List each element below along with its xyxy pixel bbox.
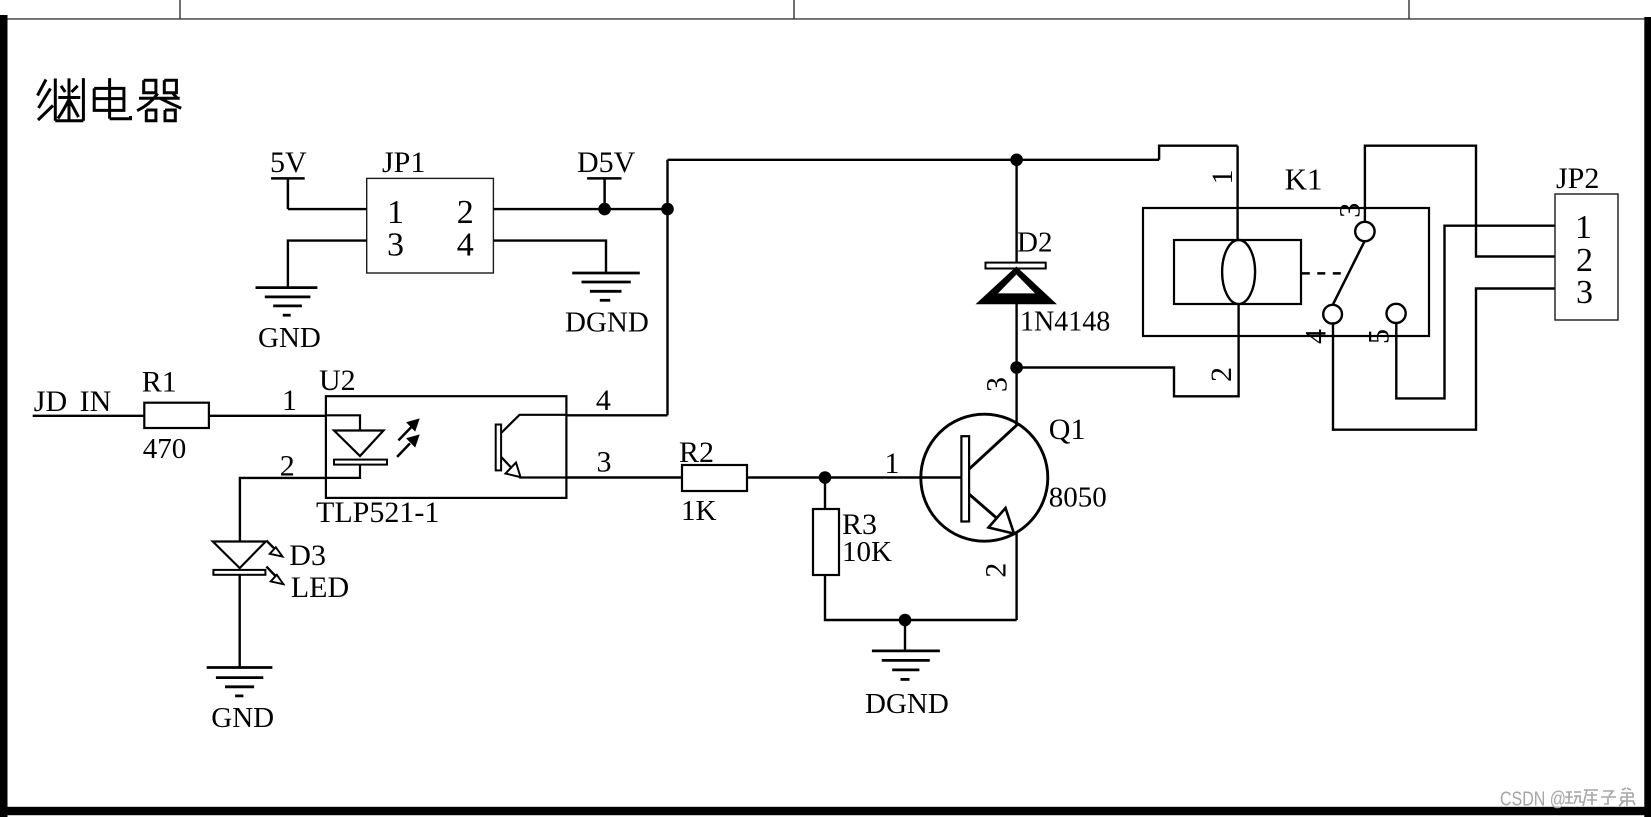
svg-text:4: 4 bbox=[596, 384, 611, 417]
D3 light ray arrow 1 bbox=[266, 541, 282, 557]
svg-text:1N4148: 1N4148 bbox=[1020, 307, 1110, 338]
wire D5V rail top horizontal bbox=[668, 159, 1160, 161]
U2 LED triangle bbox=[334, 431, 384, 457]
svg-text:10K: 10K bbox=[842, 536, 892, 568]
svg-text:3: 3 bbox=[387, 227, 404, 264]
svg-text:3: 3 bbox=[1576, 274, 1593, 311]
svg-text:DGND: DGND bbox=[865, 688, 949, 720]
ground GND (left of JP1) bbox=[256, 288, 318, 316]
diode D2 body bbox=[976, 267, 1057, 305]
power symbol D5V bbox=[587, 178, 621, 209]
switch contact pin4: circle bbox=[1323, 305, 1342, 324]
wire K1 pin5 down right up to JP2 pin1 bbox=[1396, 226, 1555, 399]
junction dot emitter ground bbox=[899, 614, 912, 627]
junction dot D2 bottom bbox=[1010, 361, 1023, 374]
svg-text:3: 3 bbox=[1334, 203, 1367, 218]
sheet border bottom bar bbox=[0, 807, 1651, 815]
resistor R2 bbox=[682, 465, 747, 491]
wire JD_IN to R1 bbox=[33, 415, 145, 417]
sheet top reference line bbox=[7, 18, 1644, 20]
U2 emitter lead to pin3 bbox=[519, 476, 566, 478]
wire U2 pin2 to D3 bbox=[240, 478, 326, 542]
svg-text:8050: 8050 bbox=[1049, 482, 1107, 514]
svg-text:D3: D3 bbox=[289, 539, 326, 572]
wire K1 pin3 up and right bbox=[1365, 146, 1555, 257]
U2 light ray arrow 1 bbox=[398, 420, 418, 441]
wire R3 to ground rail bbox=[825, 575, 1017, 620]
wire D5V rail vertical (junction to U2 pin4) bbox=[666, 160, 668, 415]
U2 phototransistor collector bbox=[501, 415, 566, 433]
svg-text:1: 1 bbox=[387, 194, 404, 231]
sheet tick 1 bbox=[179, 0, 181, 19]
svg-text:U2: U2 bbox=[319, 364, 356, 397]
svg-text:K1: K1 bbox=[1285, 162, 1323, 197]
LED D3 cathode bar bbox=[213, 570, 265, 575]
U2 phototransistor emitter bbox=[501, 457, 514, 471]
opto-coupler U2 body bbox=[326, 396, 567, 498]
svg-text:1K: 1K bbox=[681, 495, 717, 527]
svg-text:1: 1 bbox=[282, 384, 297, 417]
U2 internal LED anode lead bbox=[326, 415, 360, 430]
wire U2 pin3 to R2 bbox=[566, 476, 682, 478]
svg-text:JP2: JP2 bbox=[1556, 162, 1599, 195]
svg-text:IN: IN bbox=[80, 385, 112, 418]
U2 phototransistor base bar bbox=[496, 425, 501, 471]
svg-text:4: 4 bbox=[1300, 329, 1333, 344]
wire U2 pin4 to D5V rail bbox=[566, 414, 667, 416]
wire D3 to GND bbox=[238, 575, 240, 668]
switch contact pin5: circle bbox=[1387, 304, 1406, 323]
transistor Q1 circle bbox=[921, 414, 1048, 541]
dashed link coil to blade bbox=[1302, 272, 1347, 275]
svg-text:3: 3 bbox=[981, 377, 1014, 392]
wire junction to K1 pin2 bbox=[1017, 304, 1239, 396]
svg-text:1: 1 bbox=[1575, 209, 1592, 246]
Q1 collector diagonal bbox=[969, 424, 1018, 469]
ground DGND (below Q1) bbox=[872, 651, 940, 680]
svg-text:D2: D2 bbox=[1017, 227, 1052, 259]
svg-text:1: 1 bbox=[1206, 170, 1239, 185]
junction dot D5V tap bbox=[598, 203, 611, 216]
resistor R1 bbox=[144, 403, 209, 428]
relay K1 coil ellipse bbox=[1222, 240, 1255, 304]
Q1 emitter vertical wire bbox=[1015, 532, 1017, 620]
svg-text:2: 2 bbox=[457, 194, 474, 231]
diode D2 cathode bar bbox=[986, 263, 1046, 269]
wire junction to DGND bbox=[904, 620, 906, 651]
svg-text:DGND: DGND bbox=[565, 306, 649, 338]
svg-text:R1: R1 bbox=[142, 366, 177, 399]
svg-text:LED: LED bbox=[291, 571, 349, 604]
svg-text:2: 2 bbox=[1205, 367, 1238, 382]
switch blade bbox=[1333, 241, 1365, 305]
diode D2 anode wire bbox=[1015, 160, 1017, 263]
wire JP1 pin4 to DGND bbox=[493, 241, 606, 273]
svg-text:CSDN @: CSDN @ bbox=[1500, 789, 1566, 811]
junction dot D2 top bbox=[1010, 154, 1023, 167]
svg-text:Q1: Q1 bbox=[1049, 413, 1086, 446]
ground GND (below D3) bbox=[207, 668, 273, 696]
sheet border right bar bbox=[1644, 17, 1651, 817]
sheet tick 2 bbox=[793, 0, 795, 19]
switch common pin3: circle bbox=[1355, 222, 1374, 241]
LED D3 triangle bbox=[213, 542, 266, 569]
wire D2 cathode down to junction bbox=[1015, 304, 1017, 368]
U2 LED cathode bar bbox=[334, 460, 387, 465]
svg-text:TLP521-1: TLP521-1 bbox=[316, 496, 439, 529]
U2 light ray arrow 2 bbox=[397, 436, 418, 457]
wire JP1 pin2 to D5V junction bbox=[493, 208, 667, 210]
svg-text:470: 470 bbox=[143, 433, 187, 465]
wire K1 pin1 vertical bbox=[1236, 146, 1238, 240]
svg-text:GND: GND bbox=[211, 702, 274, 734]
Q1 emitter arrowhead bbox=[989, 508, 1015, 534]
U2 emitter arrowhead bbox=[506, 463, 521, 478]
relay K1 body box bbox=[1143, 208, 1429, 336]
svg-text:R2: R2 bbox=[679, 436, 714, 469]
Q1 collector vertical wire bbox=[1015, 368, 1017, 426]
sheet tick 3 bbox=[1408, 0, 1410, 19]
title 继电器 (drawn strokes) bbox=[38, 78, 182, 121]
svg-text:5V: 5V bbox=[270, 146, 307, 179]
wire 5V to JP1 pin1 bbox=[288, 208, 367, 210]
svg-text:4: 4 bbox=[457, 227, 474, 264]
Q1 base bar bbox=[961, 436, 969, 521]
Q1 emitter diagonal bbox=[969, 494, 996, 517]
svg-text:1: 1 bbox=[885, 447, 900, 480]
U2 LED cathode lead bbox=[326, 465, 360, 478]
svg-text:2: 2 bbox=[979, 563, 1012, 578]
connector JP2 bbox=[1555, 194, 1618, 320]
svg-text:GND: GND bbox=[258, 322, 321, 354]
wire K1 pin4 down right up to JP2 pin3 bbox=[1333, 289, 1555, 430]
power symbol 5V bbox=[271, 178, 305, 209]
svg-text:JD: JD bbox=[34, 385, 67, 418]
svg-text:D5V: D5V bbox=[577, 146, 636, 179]
junction dot base/R3 bbox=[819, 471, 832, 484]
ground DGND (below JP1) bbox=[572, 273, 640, 300]
wire R2 to Q1 base bbox=[747, 476, 961, 478]
D3 light ray arrow 2 bbox=[266, 567, 283, 585]
watermark 玩库子弟 (drawn strokes) bbox=[1565, 788, 1635, 806]
sheet border left bar bbox=[0, 15, 8, 817]
wire step up to K1 pin1 bbox=[1159, 146, 1238, 160]
wire JP1 pin3 to GND bbox=[288, 241, 367, 288]
connector JP1 bbox=[367, 178, 494, 273]
svg-text:3: 3 bbox=[597, 446, 612, 479]
resistor R3 bbox=[813, 509, 839, 575]
relay K1 coil rectangle bbox=[1174, 240, 1301, 304]
wire junction to R3 bbox=[824, 478, 826, 510]
junction dot at x667 bbox=[661, 203, 674, 216]
svg-text:JP1: JP1 bbox=[382, 146, 425, 179]
wire R1 to U2 pin1 bbox=[209, 415, 326, 417]
svg-text:5: 5 bbox=[1363, 329, 1396, 344]
